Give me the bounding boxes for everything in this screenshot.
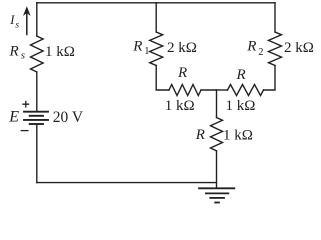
svg-text:R: R: [246, 39, 256, 55]
wire right branch upper (top rail to R2): [274, 3, 276, 32]
arrow Is head: [23, 6, 31, 16]
ground bar 1: [199, 187, 234, 189]
svg-text:2 kΩ: 2 kΩ: [167, 40, 197, 56]
svg-text:1 kΩ: 1 kΩ: [45, 44, 75, 60]
wire top rail: [37, 2, 275, 4]
wire left branch upper (top rail to Rs): [36, 3, 38, 36]
svg-text:1 kΩ: 1 kΩ: [226, 98, 256, 114]
label battery plus: [23, 101, 29, 107]
resistor R right horizontal zigzag: [228, 85, 264, 96]
wire R2 to right horizontal resistor: [264, 66, 276, 91]
arrow Is shaft: [26, 13, 28, 35]
wire node to right horizontal resistor: [217, 89, 228, 91]
wire left horizontal resistor to node: [201, 89, 217, 91]
resistor Rs zigzag: [31, 36, 44, 72]
svg-text:R: R: [177, 65, 187, 81]
wire battery to bottom rail: [36, 125, 38, 183]
ground bar 4: [215, 202, 219, 204]
svg-text:I: I: [9, 13, 15, 27]
svg-text:2 kΩ: 2 kΩ: [284, 40, 314, 56]
svg-text:R: R: [195, 127, 205, 143]
resistor R1 zigzag: [150, 32, 163, 66]
svg-text:20 V: 20 V: [53, 109, 84, 126]
resistor R2 zigzag: [269, 32, 282, 66]
ground bar 2: [206, 192, 228, 194]
wire bottom rail: [37, 182, 217, 184]
battery E plate long lower: [24, 119, 48, 121]
battery E plate short bottom: [30, 123, 43, 125]
svg-text:s: s: [21, 50, 25, 62]
svg-text:1 kΩ: 1 kΩ: [223, 128, 253, 144]
svg-text:R: R: [9, 44, 19, 60]
svg-text:E: E: [8, 109, 19, 126]
wire Rs to battery: [36, 72, 38, 111]
svg-text:1 kΩ: 1 kΩ: [165, 98, 195, 114]
battery E plate long top: [24, 111, 48, 113]
battery E plate short: [30, 115, 43, 117]
svg-text:R: R: [236, 67, 246, 83]
resistor R left horizontal zigzag: [169, 85, 201, 96]
label battery minus: [21, 130, 28, 132]
svg-text:s: s: [15, 20, 19, 30]
wire center resistor to ground: [216, 151, 218, 189]
wire R1 to left horizontal resistor: [156, 66, 169, 91]
resistor R center vertical zigzag: [211, 118, 223, 151]
node center junction: [216, 90, 218, 118]
wire middle branch upper (top rail to R1): [155, 3, 157, 32]
ground bar 3: [210, 197, 224, 199]
svg-text:R: R: [132, 39, 142, 55]
svg-text:2: 2: [258, 47, 263, 58]
svg-text:1: 1: [144, 46, 149, 57]
